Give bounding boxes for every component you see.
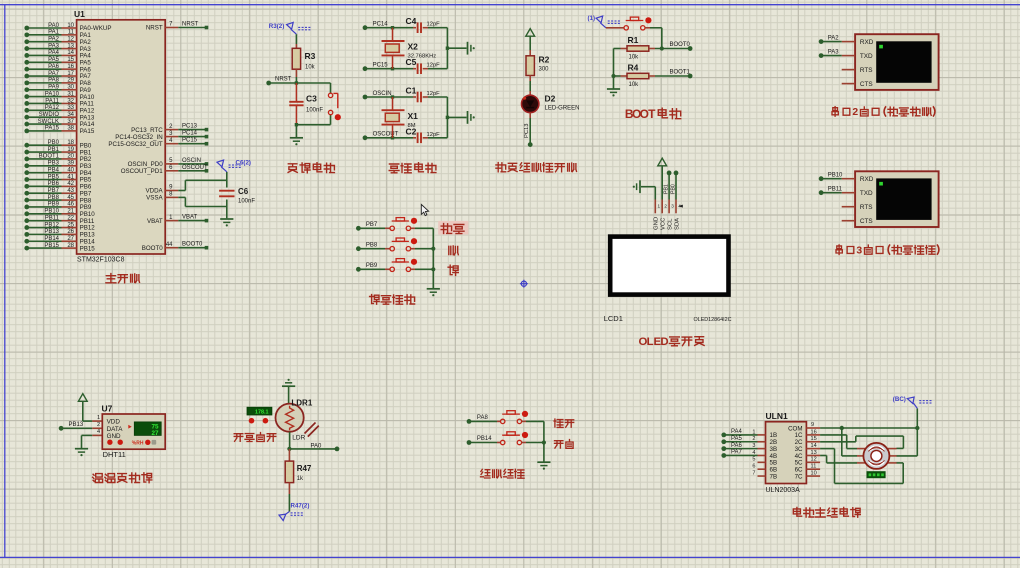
svg-text:17: 17 [67,71,74,77]
svg-text:12pF: 12pF [427,91,441,97]
svg-text:BOOT0: BOOT0 [670,42,691,48]
svg-text:RTS: RTS [860,67,873,74]
svg-text:PA8: PA8 [477,415,489,421]
svg-text:12: 12 [67,37,74,43]
svg-text:100nF: 100nF [238,199,255,205]
svg-text:PA10: PA10 [45,91,60,97]
svg-text:OLED12864I2C: OLED12864I2C [694,317,732,323]
svg-text:X1: X1 [408,111,419,121]
svg-text:1: 1 [658,204,661,209]
svg-text:PC13_RTC: PC13_RTC [131,127,163,134]
svg-text:13: 13 [811,450,817,456]
svg-text:U7: U7 [102,404,113,414]
svg-text:SDA: SDA [674,218,680,230]
svg-text:PA0: PA0 [311,443,323,449]
svg-text:37: 37 [67,119,74,125]
svg-text:PC15: PC15 [182,138,198,144]
svg-text:PB12: PB12 [44,222,59,228]
svg-text:TXD: TXD [860,53,873,60]
svg-text:NRST: NRST [182,22,199,28]
svg-text:40: 40 [67,167,74,173]
svg-text:27: 27 [67,236,74,242]
svg-text:16: 16 [67,64,74,70]
svg-text:12pF: 12pF [427,132,441,138]
svg-text:46: 46 [67,202,74,208]
svg-text:R2: R2 [539,55,550,65]
svg-text:9: 9 [811,422,814,428]
svg-text:DATA: DATA [107,426,124,433]
svg-text:PB0: PB0 [670,184,676,194]
svg-text:PA3: PA3 [828,50,840,56]
svg-text:PC15-OSC32_OUT: PC15-OSC32_OUT [108,141,163,148]
svg-text:PB3: PB3 [48,161,60,167]
svg-text:ULN1: ULN1 [766,411,788,421]
svg-text:15: 15 [811,436,817,442]
svg-text:28: 28 [67,243,74,249]
svg-text:T: T [648,107,656,121]
svg-text:178.1: 178.1 [255,410,269,416]
svg-text:CTS: CTS [860,81,873,88]
svg-text:14: 14 [67,50,74,56]
svg-text:13: 13 [67,43,74,49]
svg-text:NRST: NRST [275,77,292,83]
svg-text:PB11: PB11 [45,215,60,221]
svg-text:PB13: PB13 [44,229,59,235]
svg-text:PA15: PA15 [45,126,60,132]
svg-text:D: D [660,336,668,348]
svg-text:PB15: PB15 [44,243,59,249]
svg-text:PA15: PA15 [80,128,95,135]
svg-text:30: 30 [67,85,74,91]
svg-text:45: 45 [67,195,74,201]
svg-text:D2: D2 [545,94,556,104]
svg-text:16: 16 [811,429,817,435]
svg-text:PA9: PA9 [48,85,60,91]
svg-text:31: 31 [67,91,74,97]
svg-text:19: 19 [67,147,74,153]
svg-text:SWDIO: SWDIO [39,112,60,118]
svg-text:VDD: VDD [107,419,121,426]
svg-text:PB0: PB0 [48,140,60,146]
svg-text:1: 1 [97,415,100,421]
svg-text:RTS: RTS [860,204,873,211]
svg-text:R47(2): R47(2) [291,503,310,510]
svg-text:11: 11 [811,464,817,470]
svg-text:R47: R47 [297,464,312,473]
svg-text:32: 32 [67,98,74,104]
svg-text:20: 20 [67,154,74,160]
svg-text:PA0: PA0 [48,23,60,29]
svg-text:2: 2 [97,422,100,428]
svg-text:PB4: PB4 [48,167,60,173]
svg-text:10: 10 [811,470,817,476]
svg-text:LDR: LDR [292,435,305,442]
svg-text:TXD: TXD [860,190,873,197]
svg-text:10k: 10k [629,82,640,88]
svg-text:PB8: PB8 [366,242,378,248]
svg-text:PB9: PB9 [48,202,60,208]
svg-text:10: 10 [67,23,74,29]
svg-text:CTS: CTS [860,218,873,225]
svg-text:7: 7 [752,470,755,476]
svg-text:2: 2 [664,204,667,209]
svg-text:PB10: PB10 [44,209,59,215]
svg-text:PA12: PA12 [45,105,60,111]
svg-text:VBAT: VBAT [147,218,163,225]
svg-text:12pF: 12pF [427,22,441,28]
svg-text:OSCOUT_PD1: OSCOUT_PD1 [121,168,164,175]
svg-text:27: 27 [151,430,159,437]
svg-text:7C: 7C [795,473,803,480]
svg-text:PA5: PA5 [731,436,743,442]
svg-text:12pF: 12pF [427,63,441,69]
svg-text:PB7: PB7 [48,188,60,194]
svg-text:BOOT1: BOOT1 [670,70,691,76]
svg-text:PC13: PC13 [182,124,198,130]
svg-text:29: 29 [67,78,74,84]
svg-text:22: 22 [67,215,74,221]
svg-text:32.768KHz: 32.768KHz [408,54,437,60]
svg-text:PA11: PA11 [45,98,59,104]
svg-text:41: 41 [67,174,74,180]
svg-text:39: 39 [67,161,74,167]
svg-text:GND: GND [654,217,660,230]
svg-text:100nF: 100nF [306,108,323,114]
svg-text:LED-GREEN: LED-GREEN [545,106,580,112]
svg-text:(BC): (BC) [893,396,906,403]
svg-text:10k: 10k [629,55,640,61]
svg-text:R3: R3 [305,51,316,61]
svg-text:PB6: PB6 [48,181,60,187]
svg-text:PB7: PB7 [366,222,378,228]
svg-text:38: 38 [67,126,74,132]
svg-text:PB11: PB11 [828,187,843,193]
svg-text:PA4: PA4 [731,429,743,435]
svg-text:NRST: NRST [146,25,163,32]
svg-text:PC15: PC15 [373,63,389,69]
svg-text:(1): (1) [588,15,596,22]
svg-text:C4: C4 [406,16,417,26]
svg-text:25: 25 [67,222,74,228]
svg-text:PA5: PA5 [48,57,60,63]
svg-text:R3(2): R3(2) [269,23,284,30]
svg-text:X2: X2 [408,42,419,52]
svg-text:PA2: PA2 [828,36,840,42]
svg-text:U1: U1 [74,9,85,19]
svg-text:3: 3 [856,245,862,256]
svg-text:PA3: PA3 [48,43,60,49]
svg-text:12: 12 [811,457,817,463]
svg-text:PB8: PB8 [48,195,60,201]
svg-text:1k: 1k [297,476,304,482]
svg-text:43: 43 [67,188,74,194]
svg-text:DHT11: DHT11 [103,450,126,459]
svg-text:3: 3 [671,204,674,209]
svg-text:21: 21 [67,209,74,215]
svg-text:OSCIN: OSCIN [182,158,201,164]
svg-text:8M: 8M [408,123,416,129]
svg-text:C3: C3 [306,94,317,104]
svg-text:300: 300 [539,67,550,73]
svg-text:PA6: PA6 [48,64,60,70]
svg-text:OSCOUT: OSCOUT [373,132,399,138]
svg-text:GND: GND [107,433,121,440]
svg-text:BOOT0: BOOT0 [142,245,164,252]
svg-text:PB1: PB1 [664,184,670,194]
svg-text:SWCLK: SWCLK [38,119,59,125]
svg-text:2: 2 [852,107,858,118]
svg-text:14: 14 [811,443,817,449]
svg-text:10k: 10k [305,65,316,71]
svg-text:PB1: PB1 [48,147,60,153]
svg-text:PA1: PA1 [48,30,60,36]
svg-text:PA8: PA8 [48,78,60,84]
svg-text:BOOT1: BOOT1 [39,154,60,160]
svg-text:PB9: PB9 [366,263,378,269]
svg-text:42: 42 [67,181,74,187]
svg-text:BOOT0: BOOT0 [182,242,203,248]
svg-text:7B: 7B [770,473,778,480]
svg-text:C6(2): C6(2) [236,160,251,167]
svg-text:PC13: PC13 [524,123,530,138]
svg-text:VBAT: VBAT [182,215,198,221]
svg-text:34: 34 [67,112,74,118]
svg-text:C1: C1 [406,86,417,96]
svg-text:C6: C6 [238,187,249,196]
svg-text:44: 44 [166,242,173,248]
svg-text:%RH: %RH [132,441,144,447]
svg-text:LCD1: LCD1 [604,314,623,323]
svg-text:OSCOUT: OSCOUT [182,165,208,171]
svg-text:15: 15 [67,57,74,63]
svg-text:26: 26 [67,229,74,235]
svg-text:STM32F103C8: STM32F103C8 [77,257,125,264]
svg-text:PB14: PB14 [477,436,492,442]
svg-text:PA7: PA7 [731,450,743,456]
svg-text:RXD: RXD [860,176,874,183]
svg-text:PB10: PB10 [828,173,843,179]
svg-text:PC14: PC14 [373,22,389,28]
svg-text:11: 11 [68,30,75,36]
svg-text:PB5: PB5 [48,174,60,180]
svg-text:PA7: PA7 [48,71,60,77]
svg-text:SCL: SCL [668,218,674,230]
svg-text:VCC: VCC [661,217,667,230]
svg-text:ULN2003A: ULN2003A [766,487,801,494]
svg-text:R4: R4 [628,63,639,73]
svg-text:PB14: PB14 [44,236,59,242]
svg-text:PA6: PA6 [731,443,743,449]
svg-text:33: 33 [67,105,74,111]
svg-text:PB15: PB15 [80,245,96,252]
svg-text:PA4: PA4 [48,50,60,56]
svg-text:6: 6 [752,464,755,470]
svg-text:PB13: PB13 [69,422,84,428]
svg-text:PC14-OSC32_IN: PC14-OSC32_IN [115,134,162,141]
svg-text:R1: R1 [628,35,639,45]
svg-text:PA2: PA2 [48,37,60,43]
svg-text:18: 18 [67,140,74,146]
svg-text:RXD: RXD [860,39,874,46]
svg-text:PC14: PC14 [182,131,198,137]
svg-text:5: 5 [752,457,755,463]
svg-text:4: 4 [97,429,100,435]
svg-text:LDR1: LDR1 [291,399,312,408]
svg-text:VSSA: VSSA [146,195,163,202]
svg-text:OSCIN: OSCIN [373,91,392,97]
